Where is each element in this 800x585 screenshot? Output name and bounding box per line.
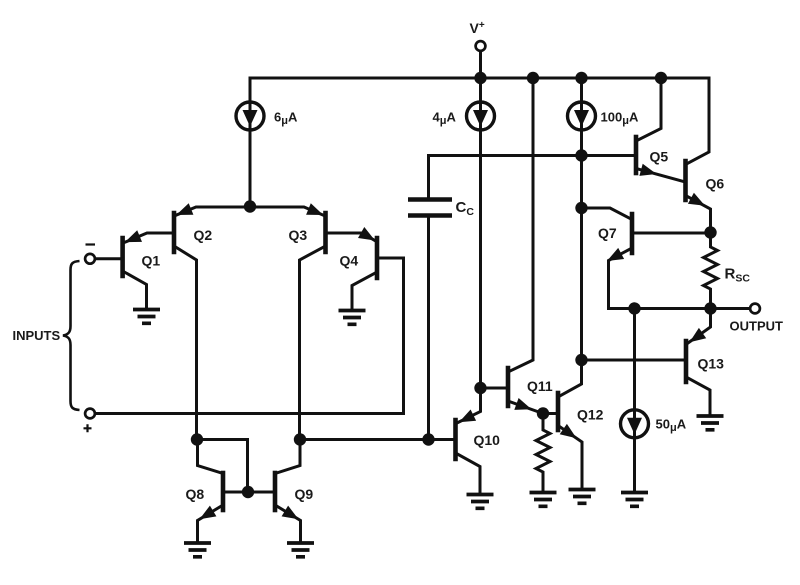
wire minus input to Q1 base [96, 257, 123, 260]
wire Cc bottom lead [427, 218, 430, 440]
brace inputs [63, 261, 80, 410]
wire Q12 base link [543, 412, 558, 415]
transistor Q10 [453, 420, 458, 459]
svg-text:Q2: Q2 [194, 227, 213, 243]
ground Q4 collector [339, 311, 366, 325]
node rail junction 100uA [575, 72, 587, 84]
transistor Q6 [683, 161, 688, 200]
wire V+ terminal lead [479, 52, 482, 79]
wire 50uA branch [633, 309, 636, 491]
node 50uA junction on output line [628, 302, 640, 314]
transistor Q3 [323, 213, 328, 252]
wire Q13 base line [582, 359, 687, 362]
node Q3 collector / Q9 collector junction [294, 433, 306, 445]
svg-text:100μA: 100μA [601, 110, 639, 128]
ground Q10 collector [467, 495, 494, 509]
ground R1 [530, 493, 557, 507]
transistor Q5 [634, 137, 639, 173]
node V+ rail junction [474, 72, 486, 84]
node rail junction Q5 collector [655, 72, 667, 84]
ground Q12 emitter [569, 490, 596, 504]
resistor Rsc [704, 233, 718, 309]
transistor Q7 [630, 214, 635, 253]
current source 6uA [236, 102, 264, 130]
node Q10 emitter / Q11 base [474, 382, 486, 394]
svg-text:Q3: Q3 [289, 227, 308, 243]
resistor R1 [536, 414, 550, 491]
wire Cc / Q5 base line [429, 156, 637, 198]
transistor Q11 [506, 368, 511, 406]
transistor Q12 [556, 393, 561, 430]
transistor Q4 [375, 238, 380, 278]
wire output line [609, 307, 750, 310]
current source 50uA [621, 410, 649, 438]
ground 50uA [621, 493, 648, 507]
wire Q8 collector-base tie [197, 440, 248, 493]
node diff pair emitter node [244, 200, 256, 212]
node rail junction x533 [527, 72, 539, 84]
svg-text:Q7: Q7 [598, 225, 617, 241]
svg-text:Q9: Q9 [295, 486, 314, 502]
svg-text:Q13: Q13 [698, 356, 725, 372]
svg-text:Q6: Q6 [706, 176, 725, 192]
node Q2 collector / Q8 collector junction [191, 433, 203, 445]
wire 6uA branch from rail to diff-pair node [249, 78, 252, 207]
node Q8/Q9 base tie [242, 486, 254, 498]
terminal OUTPUT [750, 304, 760, 314]
transistor Q9 [273, 473, 278, 510]
node Q7 collector junction [575, 202, 587, 214]
svg-text:Q12: Q12 [577, 407, 604, 423]
current source 100uA [568, 102, 596, 130]
transistor Q1 [120, 238, 125, 276]
wire mirror output line to Q10 base [300, 438, 456, 441]
wire plus input line to Q4 base [96, 258, 404, 414]
ground Q13 collector [697, 416, 724, 430]
label minus sign [86, 243, 96, 245]
wire 4uA branch [479, 78, 482, 388]
svg-text:INPUTS: INPUTS [13, 328, 61, 343]
svg-text:Q5: Q5 [650, 149, 669, 165]
label plus sign [84, 424, 92, 432]
wire Q11 collector riser [508, 78, 533, 372]
svg-text:OUTPUT: OUTPUT [730, 319, 784, 334]
current source 4uA [467, 102, 495, 130]
node Q12 collector / Q13 base junction [575, 354, 587, 366]
svg-text:Q1: Q1 [142, 253, 161, 269]
wire V+ supply rail [250, 77, 709, 80]
terminal minus input [85, 254, 95, 264]
ground Q9 emitter [287, 543, 314, 557]
node 100uA to Q5 base [575, 149, 587, 161]
svg-text:Q4: Q4 [340, 253, 359, 269]
transistor Q13 [684, 341, 689, 382]
node Q11 emitter / R1 / Q12 base [537, 407, 549, 419]
wire 100uA branch [580, 78, 583, 360]
svg-text:Q10: Q10 [474, 432, 501, 448]
capacitor Cc [408, 200, 452, 216]
node Q6 emitter / Rsc top / Q7 base [704, 226, 716, 238]
terminal V+ [476, 41, 486, 51]
ground Q8 emitter [184, 543, 211, 557]
node Cc bottom junction [422, 433, 434, 445]
svg-text:Q11: Q11 [527, 378, 553, 394]
terminal plus input [85, 409, 95, 419]
ground Q1 collector [133, 310, 160, 324]
transistor Q8 [221, 473, 226, 510]
svg-text:Q8: Q8 [186, 486, 205, 502]
transistor Q2 [172, 213, 177, 252]
node Rsc bottom on output line [704, 302, 716, 314]
